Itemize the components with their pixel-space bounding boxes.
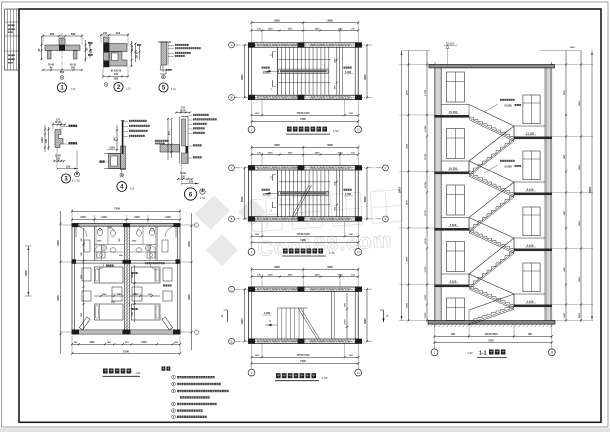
svg-text:2800: 2800 xyxy=(579,100,581,106)
svg-text:17T30: 17T30 xyxy=(425,181,427,188)
detail 4 axis circle xyxy=(120,173,124,177)
svg-text:16800: 16800 xyxy=(399,186,401,193)
plan5F right wall xyxy=(357,43,359,100)
svg-text:4.150: 4.150 xyxy=(450,279,457,283)
section right floor slab level 4 xyxy=(514,305,552,308)
svg-text:3300: 3300 xyxy=(187,241,191,247)
section roof slab xyxy=(429,65,555,68)
svg-text:7.150: 7.150 xyxy=(450,223,457,227)
detail 4 vertical dims xyxy=(116,125,118,150)
svg-text:17T30: 17T30 xyxy=(425,125,427,132)
svg-text:3600: 3600 xyxy=(364,318,367,324)
toilet plan bottom dim segments xyxy=(72,343,180,345)
bedroom closet center xyxy=(112,287,122,301)
svg-text:1800: 1800 xyxy=(41,137,44,143)
svg-text:17T30: 17T30 xyxy=(425,237,427,244)
svg-text:240: 240 xyxy=(114,73,119,76)
plan24 right vertical dimension xyxy=(366,168,368,219)
plan1F axis bubble left top xyxy=(229,286,235,292)
plan24 bottom dimension line 1 xyxy=(252,235,359,237)
svg-text:3600: 3600 xyxy=(364,74,367,80)
svg-text:960: 960 xyxy=(334,207,336,210)
detail 2 top dimension xyxy=(101,34,128,36)
svg-text:2800: 2800 xyxy=(406,200,408,206)
svg-text:1:50: 1:50 xyxy=(333,129,339,133)
svg-text:3620: 3620 xyxy=(274,19,280,23)
plan24 stair treads xyxy=(277,170,279,217)
plan1F bottom wall columns xyxy=(248,339,255,344)
svg-text:17T30: 17T30 xyxy=(425,294,427,301)
detail 3 stair step profile xyxy=(55,130,63,148)
toilet plan right wall xyxy=(179,224,181,334)
svg-text:3600: 3600 xyxy=(327,265,333,269)
svg-text:11.150: 11.150 xyxy=(526,131,535,135)
plan1F axis bubble bottom left xyxy=(251,363,253,369)
svg-text:7200: 7200 xyxy=(300,359,306,363)
section left door elevation 2 xyxy=(447,129,465,159)
toilet plan top wall xyxy=(72,223,180,225)
svg-text:1500: 1500 xyxy=(268,28,274,30)
plan1F axis bubble left bottom xyxy=(229,338,235,344)
plan24 level text left landing xyxy=(262,189,264,191)
plan24 right wall xyxy=(357,166,359,222)
plan24 section cut mark top xyxy=(271,175,273,181)
plan24 axis bubble right bottom xyxy=(383,216,389,222)
plan5F axis line top xyxy=(235,44,373,46)
svg-text:17T30: 17T30 xyxy=(425,89,427,96)
plan5F axis bubble bottom right xyxy=(357,121,359,126)
section axis bubble left xyxy=(434,343,436,350)
detail 3 number bubble xyxy=(61,174,70,183)
toilet plan title xyxy=(103,369,108,374)
plan5F left vertical dimension xyxy=(244,45,246,97)
plan1F top wall windows xyxy=(257,287,297,289)
section right floor slab level 1 xyxy=(514,137,552,140)
detail 5 axis circle xyxy=(162,75,166,79)
plan24 up arrow line xyxy=(264,192,279,194)
svg-text:120 60: 120 60 xyxy=(137,51,139,59)
svg-text:17T30: 17T30 xyxy=(425,312,427,319)
toilet plan bottom dim total xyxy=(72,353,180,355)
section right door elevation 1 xyxy=(523,95,540,124)
plan5F stairwell boundary xyxy=(279,59,331,61)
svg-text:60 60: 60 60 xyxy=(180,110,187,112)
detail 1 number bubble xyxy=(57,83,66,92)
detail 2 right dimensions xyxy=(131,41,133,67)
bathroom door arcs right unit xyxy=(165,226,176,237)
detail 5 drip edge xyxy=(160,65,161,70)
svg-text:60 60: 60 60 xyxy=(55,122,62,124)
svg-text:1b0: 1b0 xyxy=(116,32,121,35)
section handrail over left landing 4 xyxy=(441,273,469,275)
svg-text:7020: 7020 xyxy=(488,339,494,342)
detail 6 left dims xyxy=(167,118,169,160)
section cut A mark left of plan1F xyxy=(227,310,229,322)
plan5F axis line bottom xyxy=(235,96,373,98)
section right dimension total xyxy=(591,51,593,321)
svg-text:3600: 3600 xyxy=(187,294,191,300)
plan1F ground floor stair run xyxy=(277,308,279,339)
plan5F top wall columns xyxy=(248,42,255,47)
detail 3 axis circle with arrow xyxy=(76,150,78,171)
detail 1 centerline xyxy=(61,33,63,74)
section flight down-left storey 2 xyxy=(469,193,514,229)
svg-text:3600: 3600 xyxy=(24,270,28,276)
plan24 bottom dimension line 2 xyxy=(252,241,359,243)
svg-text:1-1: 1-1 xyxy=(479,351,487,357)
plan1F right vertical dimension xyxy=(366,289,368,341)
svg-text:1810: 1810 xyxy=(288,275,294,277)
section left extension lines xyxy=(399,64,435,66)
plan5F axis bubble bottom left xyxy=(251,121,253,126)
detail 2 wall section xyxy=(104,37,110,67)
section flight down-left storey 1 xyxy=(469,137,514,172)
svg-text:1:25: 1:25 xyxy=(74,179,80,183)
toilet plan left wall xyxy=(71,224,73,334)
svg-text:8.150: 8.150 xyxy=(527,187,534,191)
detail 1 top dimension xyxy=(43,35,82,37)
detail 1 right dimensions xyxy=(85,40,87,62)
plan1F left wall xyxy=(248,287,250,343)
plan5F title xyxy=(287,127,292,132)
svg-text:7200: 7200 xyxy=(300,238,306,242)
detail 4 left label xyxy=(100,161,102,163)
plan24 handrail xyxy=(279,191,329,195)
section stair annotation storey 2 xyxy=(500,160,502,162)
plan1F top wall columns xyxy=(248,287,255,292)
svg-text:C: C xyxy=(231,43,233,47)
svg-text:1:10: 1:10 xyxy=(71,88,76,91)
svg-text:17T30=5100: 17T30=5100 xyxy=(296,355,310,357)
bottom grey strip xyxy=(0,428,610,432)
plan5F bottom dimension line 1 xyxy=(252,114,359,116)
section axis bubble right xyxy=(551,343,553,350)
section left floor slab level 4 xyxy=(435,285,470,288)
svg-text:1500: 1500 xyxy=(268,275,274,277)
detail 3 left dimensions xyxy=(44,125,46,152)
svg-text:1:50: 1:50 xyxy=(329,251,335,255)
section right dimension chain inner xyxy=(565,51,567,321)
watermark logo diamond xyxy=(195,196,267,267)
svg-text:120: 120 xyxy=(181,175,186,178)
section left dimension total xyxy=(401,51,403,321)
section right door elevation 4 xyxy=(523,263,540,292)
plan5F landing edge right xyxy=(339,47,341,95)
detail 4 step block xyxy=(109,154,121,169)
svg-text:780: 780 xyxy=(81,238,83,241)
svg-text:1500: 1500 xyxy=(570,47,576,49)
svg-text:2800: 2800 xyxy=(406,143,408,149)
section stair annotation storey 1 xyxy=(500,99,502,101)
toilet plan interior dim chains xyxy=(83,228,85,330)
svg-text:1.490: 1.490 xyxy=(345,193,352,196)
svg-text:1800: 1800 xyxy=(81,313,83,317)
svg-text:3600: 3600 xyxy=(241,196,244,202)
svg-text:1800: 1800 xyxy=(81,275,83,279)
plan1F break line diagonal xyxy=(298,308,317,339)
svg-text:300: 300 xyxy=(45,138,48,143)
svg-text:1:25: 1:25 xyxy=(130,187,135,190)
section right floor slab level 2 xyxy=(514,193,552,196)
svg-text:1500: 1500 xyxy=(132,274,134,278)
plan1F bottom wall xyxy=(249,338,359,340)
plan24 axis line top xyxy=(235,167,383,169)
plan5F axis bubble left bottom xyxy=(229,95,235,101)
svg-text:2800: 2800 xyxy=(579,276,581,282)
section handrail over right landing 2 xyxy=(514,181,545,183)
plan5F level text left landing xyxy=(262,67,264,69)
plan1F right wall xyxy=(357,287,359,343)
section flight down-left storey 3 xyxy=(469,249,514,285)
svg-text:1.150: 1.150 xyxy=(527,299,534,303)
svg-text:3600: 3600 xyxy=(56,295,60,301)
svg-text:180: 180 xyxy=(71,66,76,69)
section right dimension chain outer xyxy=(580,51,582,321)
svg-text:1:10: 1:10 xyxy=(126,88,131,91)
svg-text:2100: 2100 xyxy=(345,319,347,325)
svg-text:17T30: 17T30 xyxy=(425,209,427,216)
plan24 landing interior dim xyxy=(336,170,338,217)
plan5F level text right landing xyxy=(344,67,346,69)
plan24 axis bubble bottom right xyxy=(357,242,359,249)
bedroom desks xyxy=(163,268,172,281)
detail 6 number bubble xyxy=(184,188,196,200)
svg-text:1.400: 1.400 xyxy=(263,193,270,196)
svg-text:1800: 1800 xyxy=(315,152,321,154)
detail 2 number bubble xyxy=(114,82,123,91)
detail 2 lower beam xyxy=(109,52,127,67)
plan1F bottom wall windows xyxy=(257,339,297,341)
svg-text:B: B xyxy=(231,339,233,343)
svg-text:1800: 1800 xyxy=(315,28,321,30)
plan5F bottom wall xyxy=(249,94,359,96)
plan5F top wall xyxy=(249,42,359,44)
section right wall xyxy=(546,65,551,321)
svg-text:1:10: 1:10 xyxy=(200,196,206,200)
bathroom interior door arcs xyxy=(94,245,101,252)
svg-text:3300: 3300 xyxy=(56,240,60,246)
svg-text:2100: 2100 xyxy=(101,216,107,219)
svg-text:7200: 7200 xyxy=(123,349,129,353)
svg-text:380: 380 xyxy=(114,77,119,81)
plan24 break line across treads xyxy=(292,185,309,217)
svg-text:2800: 2800 xyxy=(406,90,408,96)
svg-text:3600: 3600 xyxy=(241,318,244,324)
plan1F axis bubble bottom right xyxy=(357,363,359,369)
detail 3 leader notes xyxy=(61,126,68,128)
svg-text:1500: 1500 xyxy=(132,312,134,316)
svg-text:240: 240 xyxy=(103,32,108,35)
plan5F landing interior dim xyxy=(336,47,338,95)
plan5F bottom wall columns xyxy=(248,95,255,100)
section flight down-left storey 4 xyxy=(469,305,514,321)
svg-text:17T30: 17T30 xyxy=(425,266,427,273)
plan1F bottom dimension line 1 xyxy=(252,356,359,358)
svg-text:15.900: 15.900 xyxy=(446,41,455,45)
toilet plan bottom wall columns xyxy=(72,330,80,335)
svg-text:120: 120 xyxy=(56,158,61,161)
bathroom fixtures right xyxy=(149,228,154,235)
svg-text:1800: 1800 xyxy=(315,275,321,277)
detail 5 number bubble xyxy=(159,83,168,92)
svg-text:1500: 1500 xyxy=(268,152,274,154)
svg-text:1810: 1810 xyxy=(288,28,294,30)
plan24 axis bubble left bottom xyxy=(229,216,235,222)
svg-text:1:10: 1:10 xyxy=(171,88,176,91)
section handrail over left landing 3 xyxy=(441,217,469,219)
svg-text:15.150: 15.150 xyxy=(449,110,458,114)
svg-text:170: 170 xyxy=(181,107,186,110)
plan24 bottom wall columns xyxy=(248,216,255,221)
plan5F up arrow line xyxy=(264,70,279,72)
detail 6 floor slab left xyxy=(160,145,180,153)
svg-text:580: 580 xyxy=(50,32,55,36)
section left door elevation 1 xyxy=(447,72,465,102)
notes heading xyxy=(162,367,166,371)
plan24 axis bubble left top xyxy=(229,165,235,171)
section handrail over right landing 3 xyxy=(514,237,545,239)
detail 3 extension and arrow dim xyxy=(56,148,58,171)
plan1F left vertical dimension xyxy=(244,289,246,341)
plan5F left wall xyxy=(248,43,250,100)
svg-text:150: 150 xyxy=(66,164,71,168)
svg-text:6: 6 xyxy=(189,192,193,199)
section flight down-right storey 3 xyxy=(469,228,514,249)
detail 2 floor slab xyxy=(109,44,127,52)
plan24 stairwell boundary xyxy=(279,181,331,183)
toilet plan center shaft wall xyxy=(124,226,129,330)
plan5F handrail xyxy=(279,69,329,73)
entry door swings bottom xyxy=(79,317,172,330)
svg-text:5.150: 5.150 xyxy=(527,243,534,247)
section left door elevation 5 xyxy=(447,298,465,321)
plan5F section cut mark bottom xyxy=(271,80,273,86)
bathroom partition right xyxy=(155,226,157,260)
plan24 level text right landing xyxy=(344,189,346,191)
svg-text:3600: 3600 xyxy=(327,19,333,23)
svg-text:600: 600 xyxy=(60,70,65,74)
svg-text:1200: 1200 xyxy=(165,216,171,219)
section left wall xyxy=(435,65,440,321)
svg-text:2800: 2800 xyxy=(406,256,408,262)
svg-text:7200: 7200 xyxy=(300,117,306,121)
bathroom inner partition lines xyxy=(94,243,124,245)
toilet plan bottom wall xyxy=(72,329,180,331)
plan5F section cut mark top xyxy=(271,52,273,58)
bedroom bed left lower xyxy=(95,304,124,320)
svg-text:2800: 2800 xyxy=(579,164,581,170)
detail 6 leader notes right xyxy=(189,115,193,117)
title table text xyxy=(8,25,9,27)
svg-text:960: 960 xyxy=(334,86,336,89)
notes items xyxy=(172,375,176,379)
section flight down-right storey 1 xyxy=(469,115,514,137)
svg-text:10.080: 10.080 xyxy=(504,165,512,168)
left isolated vertical dimension xyxy=(27,246,29,296)
detail 2 axis circle xyxy=(104,83,108,87)
plan24 bottom wall xyxy=(249,216,359,218)
section cut A mark right of plan1F xyxy=(383,310,385,322)
svg-text:2800: 2800 xyxy=(579,220,581,226)
section flight down-right storey 4 xyxy=(469,285,514,305)
plan1F axis line bottom xyxy=(235,340,373,342)
svg-text:1200: 1200 xyxy=(80,216,86,219)
plan24 top wall xyxy=(249,165,359,167)
svg-text:3620: 3620 xyxy=(274,265,280,269)
svg-text:C: C xyxy=(385,166,387,170)
plan24 axis line bottom xyxy=(235,218,383,220)
plan1F axis line top xyxy=(235,288,373,290)
plan24 tread left boundary xyxy=(277,170,279,217)
watermark text tumu zaixian xyxy=(251,189,403,231)
plan1F up arrow xyxy=(265,324,278,326)
svg-text:1600: 1600 xyxy=(334,59,336,63)
svg-text:3620: 3620 xyxy=(274,143,280,147)
detail 4 hatched newel xyxy=(121,146,126,170)
svg-text:3600: 3600 xyxy=(364,196,367,202)
toilet plan axis bubbles right xyxy=(194,223,198,227)
svg-text:150: 150 xyxy=(189,179,194,183)
section left floor slab level 2 xyxy=(435,172,470,175)
svg-text:B: B xyxy=(231,96,233,100)
plan24 axis bubble bottom left xyxy=(251,242,253,249)
svg-text:C: C xyxy=(231,166,233,170)
svg-text:2430: 2430 xyxy=(141,341,147,344)
svg-text:B: B xyxy=(121,173,123,177)
section flight down-right storey 2 xyxy=(469,172,514,193)
bathroom partition left xyxy=(93,226,95,260)
section handrail over right landing 4 xyxy=(514,293,545,295)
svg-text:16800: 16800 xyxy=(590,186,592,193)
svg-text:2400: 2400 xyxy=(134,216,140,219)
svg-text:2800: 2800 xyxy=(406,302,408,308)
svg-text:1.490: 1.490 xyxy=(345,71,352,74)
detail 6 axis circle with arrow xyxy=(200,189,205,194)
title table strip xyxy=(5,9,20,70)
plan5F bottom dimension line 2 xyxy=(252,120,359,122)
section handrail over right landing 1 xyxy=(514,125,545,127)
svg-text:1600: 1600 xyxy=(334,181,336,185)
svg-text:1F120=2340: 1F120=2340 xyxy=(484,333,498,336)
svg-text:17T30: 17T30 xyxy=(425,153,427,160)
detail 4 railing post xyxy=(122,121,124,155)
svg-text:3510: 3510 xyxy=(89,342,95,344)
section right door elevation 2 xyxy=(523,151,540,180)
section bottom dimension total xyxy=(435,342,552,344)
detail 5 parapet wall section xyxy=(161,42,167,65)
svg-text:1810: 1810 xyxy=(288,152,294,154)
plan1F bottom dimension line 2 xyxy=(252,362,359,364)
toilet plan top wall columns xyxy=(72,223,79,227)
detail 1 axis circle xyxy=(60,76,64,80)
section handrail over left landing 2 xyxy=(441,160,469,162)
section right floor slab level 3 xyxy=(514,249,552,252)
svg-text:C: C xyxy=(231,287,233,291)
bathroom door arcs left unit xyxy=(76,226,87,237)
section left door elevation 3 xyxy=(447,185,465,215)
section left floor slab level 3 xyxy=(435,228,470,231)
svg-text:120: 120 xyxy=(90,48,93,53)
svg-text:1:50: 1:50 xyxy=(467,351,473,355)
svg-text:1.400: 1.400 xyxy=(263,71,270,74)
section bottom dimension line xyxy=(435,335,552,337)
svg-text:1:50: 1:50 xyxy=(322,376,328,380)
svg-text:B: B xyxy=(385,217,387,221)
svg-text:580: 580 xyxy=(71,32,76,36)
plan1F top wall xyxy=(249,286,359,288)
svg-text:1:50: 1:50 xyxy=(136,372,141,375)
section ground slab xyxy=(428,321,555,325)
